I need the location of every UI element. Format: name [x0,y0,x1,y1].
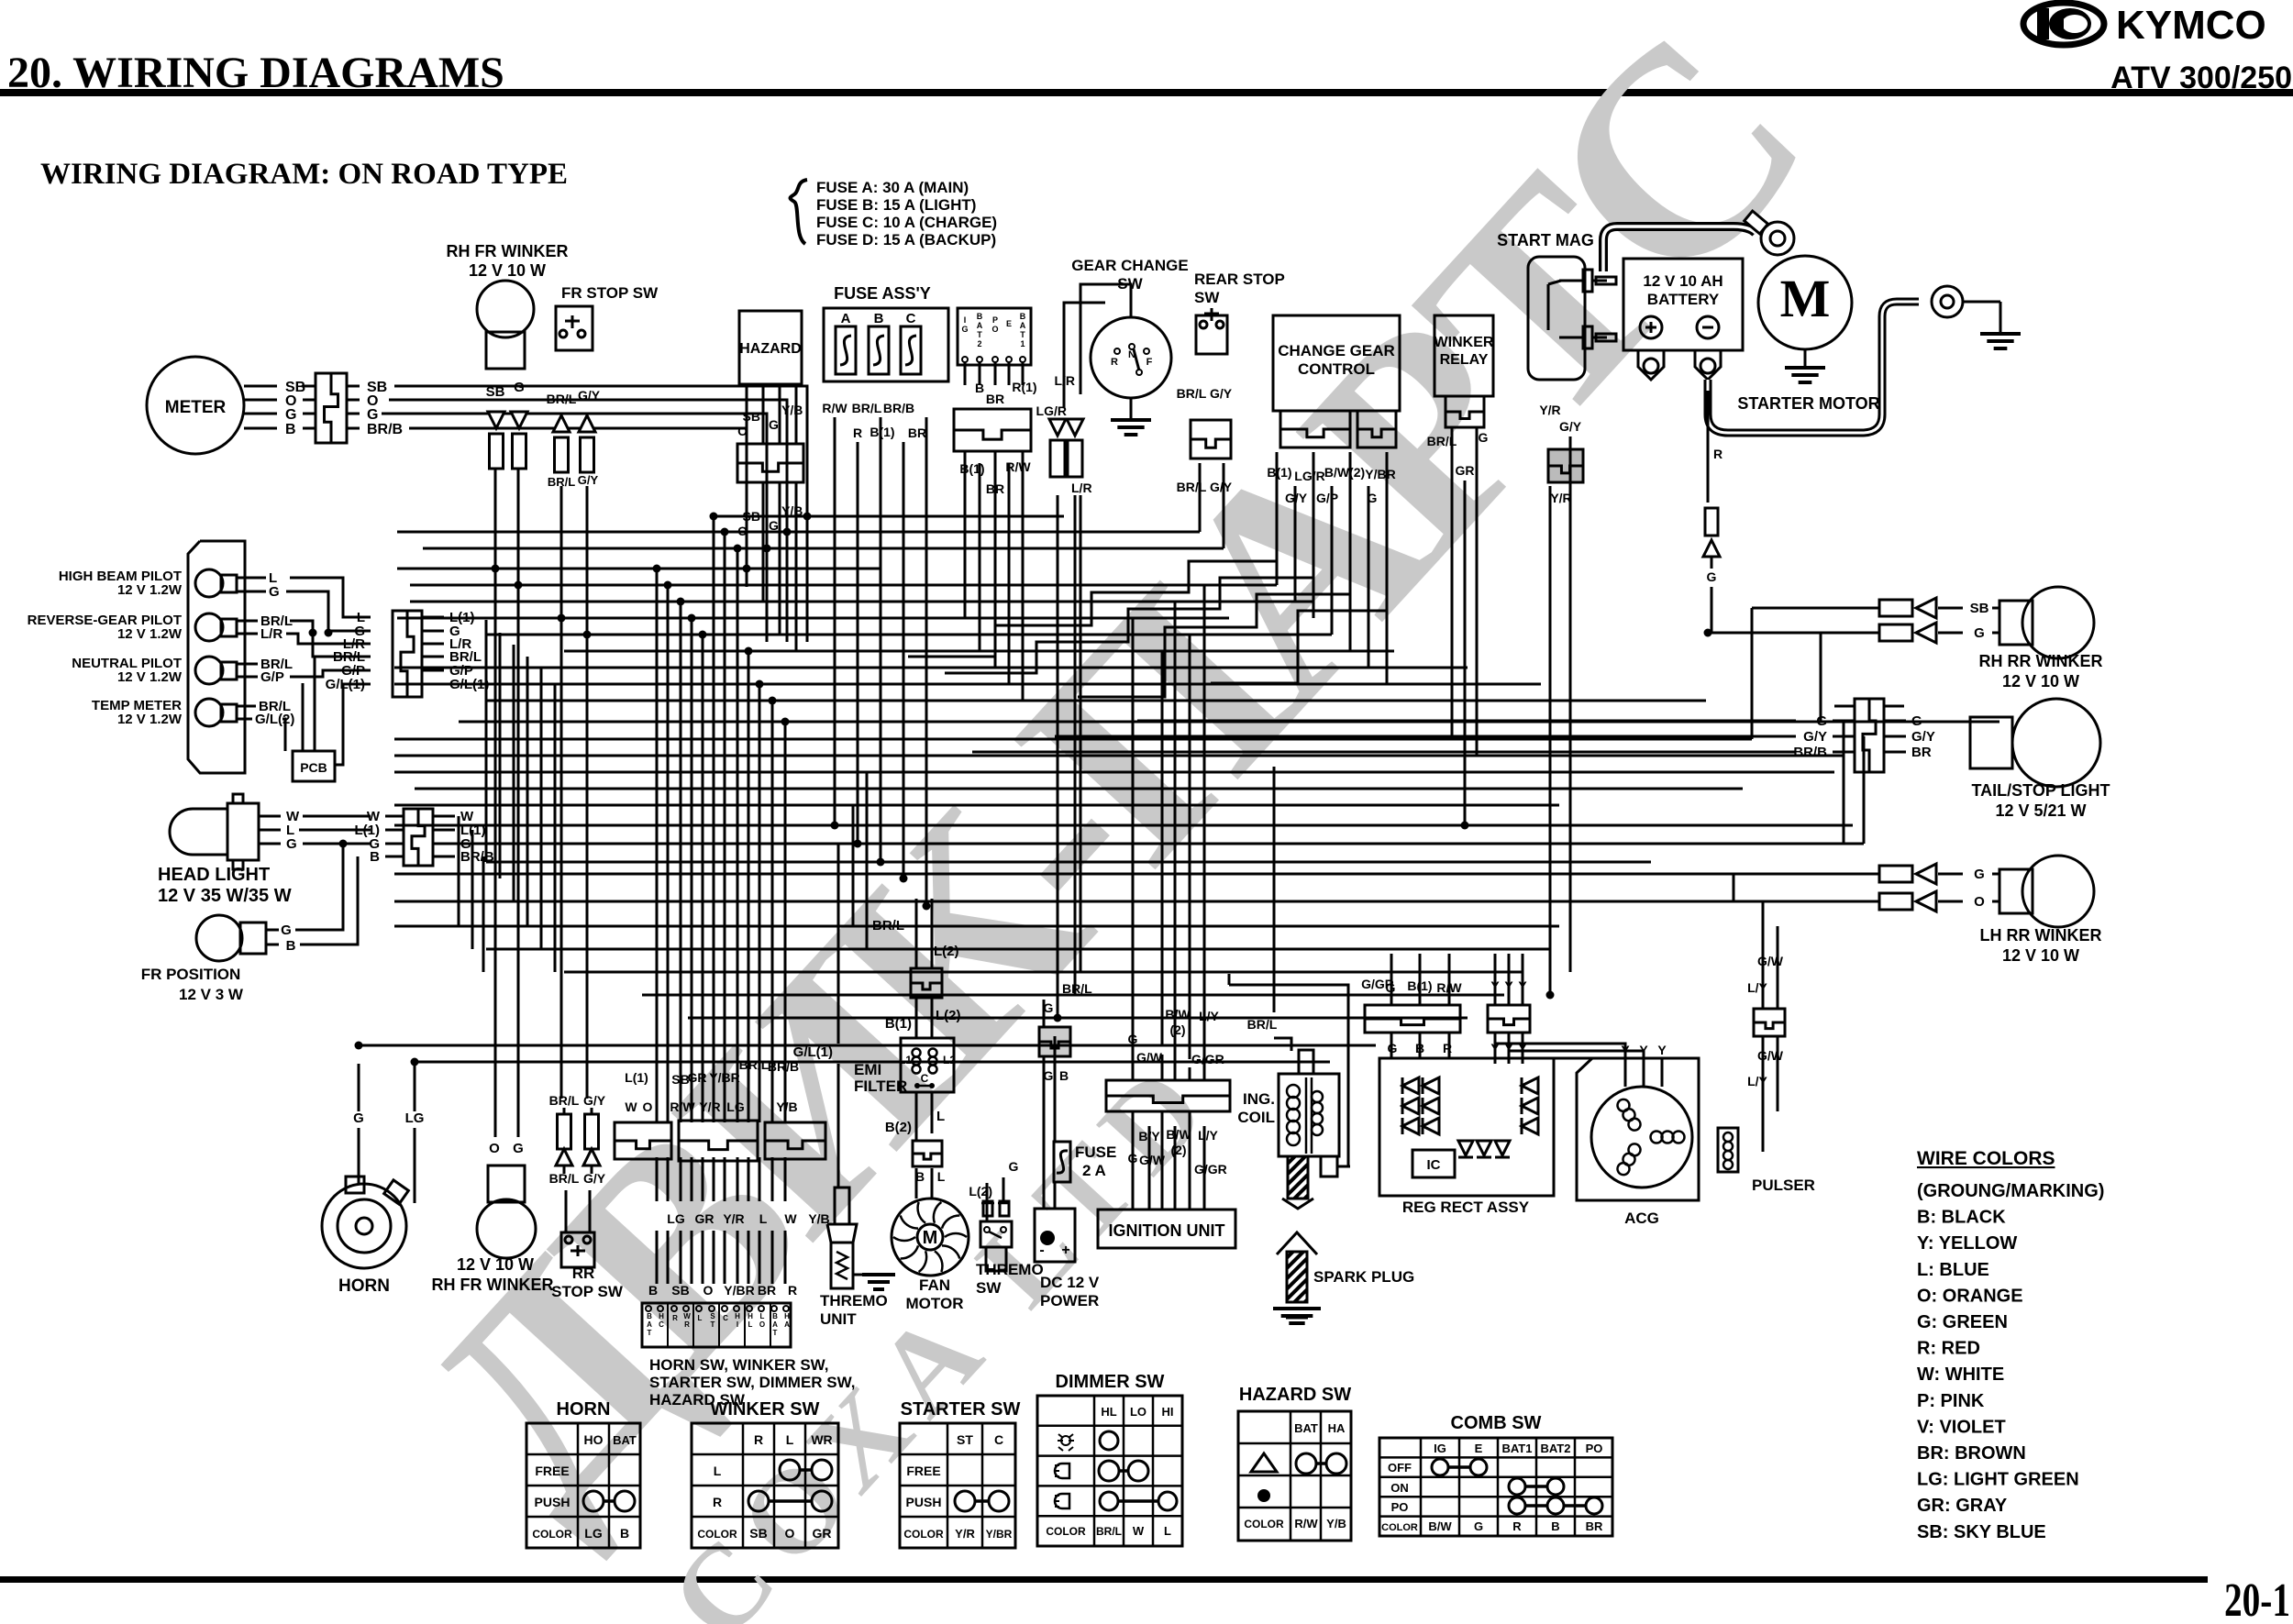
wire [1057,495,1059,1018]
svg-text:BR/L: BR/L [549,1093,580,1108]
svg-text:G: G [513,1141,524,1156]
pilot lamp cluster bracket [188,541,245,773]
wire [1132,618,1135,1080]
svg-text:Y/R: Y/R [955,1527,975,1541]
svg-text:O: O [991,325,998,334]
svg-text:R: RED: R: RED [1917,1339,1980,1359]
svg-text:LG: LG [726,1099,745,1114]
reg rect assy [1379,1058,1554,1196]
svg-text:SW: SW [1194,289,1220,306]
svg-text:START MAG: START MAG [1497,231,1594,249]
svg-text:L: L [698,1314,703,1322]
svg-text:R: R [1512,1519,1522,1533]
wire [1008,463,1011,684]
svg-text:BAT: BAT [1294,1421,1318,1435]
svg-text:L: L [936,1109,945,1124]
gear change wires [1080,284,1131,394]
pilot bulb NEUTRAL PILOT [195,657,223,684]
svg-text:G/L(1): G/L(1) [793,1044,833,1060]
svg-text:2: 2 [977,339,981,348]
svg-text:LG: LG [667,1211,685,1226]
svg-text:R: R [684,1320,690,1329]
svg-text:SB: SB [671,1283,689,1298]
wire [714,515,1064,518]
battery cable loop [1708,302,1919,433]
wire [1043,1056,1046,1209]
acg y connector [1488,1005,1530,1033]
wire [880,417,882,862]
wire [964,451,967,618]
reg rect ic [1412,1150,1455,1177]
battery lugs [1638,350,1664,380]
wire staircase [1078,510,1350,697]
svg-text:Y/BR: Y/BR [724,1283,754,1298]
svg-text:+: + [1061,1243,1069,1258]
svg-text:BR/B: BR/B [883,401,914,415]
svg-text:BR: BROWN: BR: BROWN [1917,1443,2026,1464]
wire [359,1044,1376,1047]
svg-text:12 V 1.2W: 12 V 1.2W [117,582,183,598]
svg-text:HA: HA [1328,1421,1346,1435]
svg-text:BAT2: BAT2 [1541,1442,1571,1455]
wire [915,1168,918,1199]
svg-text:B: B [647,1312,652,1320]
wire [766,548,769,642]
wire [784,1157,787,1201]
svg-text:IGNITION UNIT: IGNITION UNIT [1109,1221,1225,1240]
watermark text [364,0,1858,1624]
wire [1189,1110,1191,1210]
svg-text:T: T [648,1329,652,1337]
svg-text:B: B [370,849,380,865]
spark plug hatched at coil [1288,1156,1308,1199]
svg-text:L(2): L(2) [969,1184,992,1199]
svg-text:HAZARD: HAZARD [739,341,802,357]
svg-text:G/GR: G/GR [1191,1052,1224,1066]
svg-text:B(1): B(1) [870,425,894,439]
svg-text:G/GR: G/GR [1194,1162,1227,1177]
svg-text:W: W [683,1312,691,1320]
pcb wires [302,683,305,751]
svg-text:T: T [711,1320,715,1329]
wire [1522,954,1524,1005]
wire staircase [945,510,1313,673]
svg-text:HAZARD SW: HAZARD SW [1239,1385,1351,1405]
svg-text:L1: L1 [899,1054,912,1066]
svg-text:L/R: L/R [1054,373,1075,388]
change gear control [1273,315,1400,411]
svg-text:GR: GR [1456,463,1475,478]
svg-text:RH FR WINKER: RH FR WINKER [447,242,569,260]
svg-text:W: W [625,1099,637,1114]
svg-text:STARTER SW, DIMMER SW,: STARTER SW, DIMMER SW, [649,1374,855,1391]
wire [482,856,485,972]
svg-text:BAT: BAT [613,1433,637,1447]
wire [471,830,474,949]
svg-text:UNIT: UNIT [820,1310,857,1328]
svg-text:HEAD LIGHT: HEAD LIGHT [158,865,270,885]
wire [1777,1036,1779,1111]
wire [786,532,789,642]
wire [748,1157,750,1201]
svg-text:BR: BR [758,1283,776,1298]
thremo unit [835,1188,849,1224]
wire [903,442,905,878]
svg-text:LH RR WINKER: LH RR WINKER [1980,926,2102,945]
wire [1161,651,1164,1045]
svg-text:B(1): B(1) [1267,465,1291,480]
wire [834,417,836,825]
wire [1451,427,1454,739]
svg-text:A: A [647,1320,652,1329]
svg-text:BR: BR [1586,1519,1603,1533]
fr position lamp [196,915,242,961]
wire [713,1157,715,1201]
svg-text:O: O [1974,894,1985,910]
pilot harness connector [393,611,422,697]
svg-text:OFF: OFF [1388,1461,1412,1475]
svg-text:Y: Y [1657,1043,1667,1057]
wire [1762,901,1765,1009]
wire [680,602,682,1122]
wire [397,531,1200,534]
svg-text:HORN: HORN [557,1399,611,1420]
junction dots [710,513,718,521]
wire [394,667,1468,669]
wire [486,700,1706,702]
svg-text:LG/R: LG/R [1036,403,1067,418]
svg-text:GR: GR [813,1526,832,1541]
svg-text:SB: SB [749,1526,767,1541]
comb sw connector [958,308,1031,365]
svg-text:S: S [710,1312,715,1320]
PCB box [293,751,335,781]
svg-text:G/W: G/W [1757,1048,1784,1063]
wire [746,569,748,587]
footer rule [0,1576,2208,1583]
svg-text:GEAR CHANGE: GEAR CHANGE [1071,257,1189,274]
svg-text:P: P [992,315,998,325]
svg-text:Y: YELLOW: Y: YELLOW [1917,1233,2017,1254]
svg-text:L(2): L(2) [934,944,959,959]
svg-text:FUSE ASS'Y: FUSE ASS'Y [834,284,931,303]
wire [837,1064,840,1188]
svg-text:BR: BR [986,392,1004,406]
acg [1577,1058,1699,1200]
wire [1752,607,1879,610]
wire [394,925,1559,928]
wire [713,516,715,1122]
svg-text:12 V 1.2W: 12 V 1.2W [117,712,183,727]
svg-text:Y/B: Y/B [1326,1517,1346,1530]
svg-text:BR/B: BR/B [1793,745,1827,760]
start mag to battery red wire [1707,391,1710,503]
svg-text:FR STOP SW: FR STOP SW [561,284,659,302]
svg-text:HL: HL [1101,1405,1116,1419]
wire [771,1157,774,1201]
wire [486,948,1550,951]
svg-text:W: W [1133,1524,1145,1538]
svg-text:HO: HO [584,1432,604,1447]
svg-text:(2): (2) [1169,1022,1185,1037]
svg-text:O: O [785,1526,795,1541]
svg-text:RH RR WINKER: RH RR WINKER [1979,652,2103,670]
wire [1494,954,1497,1005]
wire [737,1231,739,1284]
svg-text:G/P: G/P [1316,491,1338,505]
svg-text:POWER: POWER [1040,1292,1099,1309]
comb sw lower connector [954,409,1031,451]
svg-text:REAR STOP: REAR STOP [1194,271,1285,288]
wire [691,1231,693,1284]
svg-text:G: G [281,922,292,938]
svg-text:PO: PO [1391,1500,1409,1514]
wire [979,463,981,651]
svg-text:T: T [977,330,982,339]
svg-text:G: G [1009,1159,1019,1174]
wire [1419,954,1422,1005]
svg-text:M: M [1780,269,1831,328]
svg-text:12 V 5/21 W: 12 V 5/21 W [1995,801,2086,820]
svg-text:C: C [723,1314,728,1322]
wire [423,547,1224,550]
svg-text:PCB: PCB [300,760,327,775]
svg-text:L/R: L/R [260,626,282,642]
wire [1002,1177,1005,1201]
svg-text:PULSER: PULSER [1752,1177,1815,1194]
wire [1733,874,1735,901]
svg-text:G/L(2): G/L(2) [255,712,294,727]
gear change sw ground [1130,398,1133,420]
svg-text:R: R [1111,357,1118,368]
svg-text:A: A [977,321,983,330]
svg-text:A: A [841,311,851,326]
svg-text:L: L [748,1320,753,1329]
wire [1199,463,1202,532]
lh rr winker [1879,866,1912,882]
head light mid wires [303,815,371,818]
wire [691,1157,693,1201]
svg-text:STARTER MOTOR: STARTER MOTOR [1737,394,1879,413]
svg-text:B: B [1020,312,1026,321]
svg-text:BR: BR [908,425,926,440]
svg-text:R: R [713,1495,722,1509]
svg-text:SPARK PLUG: SPARK PLUG [1313,1268,1414,1286]
wire [759,1157,761,1201]
svg-text:COIL: COIL [1237,1109,1275,1126]
wire [540,668,543,949]
wire [415,1061,1330,1064]
wire [1419,1033,1422,1058]
wire [1132,1110,1135,1210]
wire [746,510,748,585]
svg-text:COLOR: COLOR [1244,1518,1284,1530]
svg-text:G/P: G/P [260,669,284,685]
wire [806,516,809,642]
svg-text:L: L [759,1211,768,1226]
wire [394,804,1559,807]
wire [1174,602,1177,1080]
svg-text:Y/R: Y/R [1539,403,1560,417]
svg-text:Y/R: Y/R [1550,491,1571,505]
meter wires [394,386,807,516]
dc power connector [1039,1027,1070,1056]
svg-text:ING.: ING. [1243,1090,1275,1108]
wire [1448,1033,1451,1058]
svg-text:LG: LIGHT GREEN: LG: LIGHT GREEN [1917,1470,2079,1490]
svg-text:12 V 10 AH: 12 V 10 AH [1643,272,1723,290]
svg-text:(2): (2) [1170,1143,1186,1157]
head light connector [404,809,433,866]
svg-text:L2: L2 [943,1054,956,1066]
wire [1448,954,1451,1005]
svg-text:BR/L: BR/L [1177,480,1207,494]
svg-text:G: G [961,325,968,334]
thremo sw [980,1221,1012,1247]
svg-text:CONTROL: CONTROL [1298,360,1375,378]
svg-text:C: C [994,1432,1003,1447]
svg-text:STOP SW: STOP SW [551,1283,624,1300]
svg-text:1: 1 [1020,339,1025,348]
svg-text:KYMCO: KYMCO [2116,3,2266,48]
wire [852,805,855,926]
wire [762,510,765,602]
wire [795,510,798,651]
hazard connector [737,444,803,482]
wire [702,1157,704,1201]
pilot bulb REVERSE-GEAR PILOT [195,613,223,641]
wire [784,722,787,1122]
svg-text:O: O [759,1320,765,1329]
KYMCO logo [2023,3,2104,45]
svg-text:G/L(1): G/L(1) [326,677,365,692]
wire [857,442,859,844]
svg-text:WR: WR [811,1432,832,1447]
svg-text:THREMO: THREMO [976,1261,1044,1278]
wire [931,899,934,968]
svg-text:L: L [1164,1524,1171,1538]
svg-text:LG/R: LG/R [1294,469,1324,483]
svg-text:G/Y: G/Y [578,473,599,487]
svg-text:B/W: B/W [1428,1519,1452,1533]
svg-text:BAT1: BAT1 [1502,1442,1533,1455]
svg-text:WIRING DIAGRAM: ON ROAD TYPE: WIRING DIAGRAM: ON ROAD TYPE [40,158,568,191]
wire [486,861,1651,864]
svg-text:L: BLUE: L: BLUE [1917,1260,1989,1280]
svg-text:E: E [1475,1442,1483,1455]
svg-text:H: H [659,1312,664,1320]
battery [1623,259,1743,350]
wire [771,1231,774,1284]
svg-text:BR/L: BR/L [852,401,882,415]
wire [455,843,1864,845]
svg-text:PUSH: PUSH [535,1495,570,1509]
wire [1055,735,1796,738]
svg-text:H: H [735,1312,740,1320]
svg-text:G/Y: G/Y [1210,386,1233,401]
svg-text:G: G [1974,867,1985,882]
rh fr winker lower bulb [488,1166,525,1202]
wire [656,1157,659,1201]
svg-text:FILTER: FILTER [854,1077,907,1095]
svg-text:G: G [769,417,779,432]
wire [1223,463,1225,548]
svg-text:R/W: R/W [822,401,847,415]
svg-text:B: B [975,381,984,395]
wire [915,999,918,1038]
svg-text:V: VIOLET: V: VIOLET [1917,1417,2006,1437]
wire [680,1231,682,1284]
svg-text:SB: SKY BLUE: SB: SKY BLUE [1917,1522,2046,1542]
wire [837,844,840,1044]
svg-text:B: B [1059,1068,1069,1083]
svg-text:R: R [788,1283,797,1298]
wire [485,620,488,862]
svg-text:COLOR: COLOR [903,1528,944,1541]
wire [410,584,1277,587]
wire [667,585,670,1122]
wire [394,738,1752,741]
meter connector [316,373,347,443]
svg-text:P: PINK: P: PINK [1917,1391,1985,1411]
svg-text:A: A [784,1320,790,1329]
wire [526,657,529,926]
svg-text:A: A [772,1320,778,1329]
svg-text:PO: PO [1586,1442,1603,1455]
meter [147,357,244,454]
wire [517,468,520,1137]
wire [986,1183,989,1221]
wire [1820,633,1822,722]
pilot bulb HIGH BEAM PILOT [195,569,223,597]
svg-text:I: I [737,1320,738,1329]
svg-text:B(1): B(1) [959,461,984,476]
svg-text:GR: GRAY: GR: GRAY [1917,1496,2008,1516]
wire staircase [908,510,1277,657]
wire [1203,585,1206,1080]
svg-text:FREE: FREE [535,1464,569,1478]
handle switch connector block [642,1303,791,1347]
wire [784,1231,787,1284]
svg-text:12 V 10 W: 12 V 10 W [469,261,546,280]
rr stop sw [561,1232,594,1267]
svg-text:LG: LG [584,1526,603,1541]
wire [691,618,693,1122]
svg-text:TAIL/STOP LIGHT: TAIL/STOP LIGHT [1971,781,2110,800]
svg-text:L(2): L(2) [936,1008,961,1023]
svg-text:H: H [784,1312,790,1320]
svg-text:METER: METER [165,398,227,417]
wire [656,569,659,1122]
svg-text:C: C [921,1072,929,1085]
svg-text:SB: SB [1970,601,1989,616]
wire [771,701,774,1122]
pilot bulb TEMP METER [195,699,223,726]
svg-text:T: T [773,1329,778,1337]
wire [680,1157,682,1201]
svg-text:O: O [643,1099,653,1114]
svg-text:B: B [286,938,296,954]
svg-text:B: B [772,1312,778,1320]
wire [1189,635,1191,1059]
wire [1708,632,1879,635]
svg-text:12 V 1.2W: 12 V 1.2W [117,626,183,642]
wire [713,1231,715,1284]
svg-text:STARTER SW: STARTER SW [901,1399,1021,1420]
rr stop sw sockets [558,1114,571,1149]
svg-text:G: G [514,380,525,395]
svg-text:L: L [714,1464,722,1478]
